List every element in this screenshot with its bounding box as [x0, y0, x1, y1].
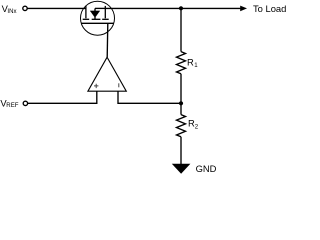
arrow To Load	[240, 6, 247, 12]
wire R2 to ground	[180, 137, 182, 164]
node junction top	[179, 6, 183, 10]
transistor Q1 pass MOSFET	[81, 1, 115, 35]
svg-text:1: 1	[194, 62, 198, 69]
wire FET drain to load	[105, 7, 241, 9]
label VINx	[2, 3, 17, 15]
wire junction to R2	[180, 103, 182, 114]
wire R1 to junction	[180, 74, 182, 104]
ground	[172, 163, 217, 174]
node VIN terminal	[23, 6, 27, 10]
svg-text:To Load: To Load	[253, 3, 286, 14]
wire op-amp noninverting input to VREF	[28, 91, 97, 103]
label VREF	[0, 98, 18, 110]
resistor R2	[177, 115, 199, 137]
op-amp U1	[88, 57, 126, 91]
svg-text:REF: REF	[6, 102, 18, 109]
svg-text:GND: GND	[196, 163, 217, 174]
svg-text:R: R	[187, 57, 194, 68]
node VREF terminal	[23, 101, 27, 105]
svg-text:2: 2	[195, 124, 199, 131]
resistor R1	[177, 52, 199, 74]
wire junction to op-amp inverting input	[118, 91, 181, 103]
wire VIN to FET source bar	[27, 7, 86, 9]
wire top rail to R1	[180, 8, 182, 51]
wire FET gate to op-amp output	[106, 23, 109, 57]
node junction bottom	[179, 101, 183, 105]
svg-text:INx: INx	[7, 8, 16, 15]
